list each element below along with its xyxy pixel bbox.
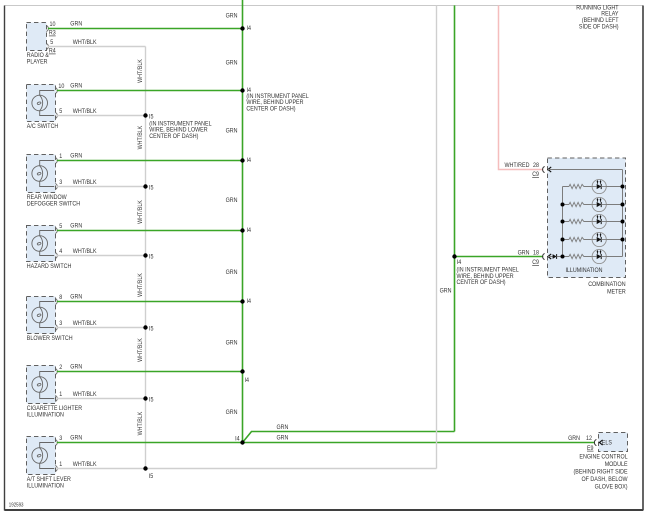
svg-text:SIDE OF DASH): SIDE OF DASH) — [579, 24, 619, 31]
bulb symbol inside A/T SHIFT LEVER ILLUMINATION — [32, 448, 48, 464]
pin 1 of REAR WINDOW DEFOGGER SWITCH — [55, 158, 57, 164]
svg-text:I4: I4 — [247, 25, 252, 32]
wire WHT/BLK from CIGARETTE LIGHTER ILLUMINATION pin 1 to bus — [57, 398, 146, 400]
svg-text:WHT/BLK: WHT/BLK — [73, 391, 97, 398]
pin 5 of RADIO & PLAYER — [46, 44, 48, 50]
svg-text:10: 10 — [58, 83, 64, 90]
junction I4 (RADIO & PLAYER GRN row) — [240, 26, 244, 30]
meter illumination branch 5: resistor + LED — [563, 256, 570, 258]
junction dot right rail row 2 — [621, 203, 625, 207]
pin 10 of A/C SWITCH — [55, 88, 57, 94]
junction I5 (CIGARETTE LIGHTER ILLUMINATION WHT/BLK row) — [143, 396, 147, 400]
internal wire from pin 28 to right rail — [548, 169, 623, 171]
junction I4 (BLOWER SWITCH GRN row) — [240, 299, 244, 303]
component RADIO & PLAYER (dashed box) — [27, 23, 47, 51]
svg-text:GRN: GRN — [70, 294, 82, 301]
component A/C SWITCH (dashed box) — [27, 85, 56, 122]
wire: GRN to engine control module — [243, 442, 596, 444]
bulb symbol inside HAZARD SWITCH — [32, 236, 48, 252]
wire GRN from A/T SHIFT LEVER ILLUMINATION pin 3 to bus — [57, 442, 243, 444]
svg-text:I4: I4 — [247, 227, 252, 234]
svg-text:5: 5 — [59, 108, 62, 115]
internal leads of CIGARETTE LIGHTER ILLUMINATION — [40, 372, 55, 377]
internal leads of REAR WINDOW DEFOGGER SWITCH — [40, 161, 55, 166]
svg-text:WHT/BLK: WHT/BLK — [73, 179, 97, 186]
svg-text:ELS: ELS — [602, 440, 612, 447]
pin 10 of RADIO & PLAYER — [46, 26, 48, 32]
wire GRN from BLOWER SWITCH pin 8 to bus — [57, 301, 243, 303]
junction I5 (REAR WINDOW DEFOGGER SWITCH WHT/BLK row) — [143, 184, 147, 188]
pin 8 of BLOWER SWITCH — [55, 299, 57, 305]
pin 5 of A/C SWITCH — [55, 113, 57, 119]
page right border — [642, 6, 644, 511]
bulb symbol inside A/C SWITCH — [32, 95, 48, 111]
pin 2 of CIGARETTE LIGHTER ILLUMINATION — [55, 369, 57, 375]
pin 1 of A/T SHIFT LEVER ILLUMINATION — [55, 466, 57, 472]
svg-text:WHT/BLK: WHT/BLK — [137, 411, 144, 435]
svg-text:I5: I5 — [149, 473, 154, 480]
pin 3 of A/T SHIFT LEVER ILLUMINATION — [55, 440, 57, 446]
svg-text:WHT/BLK: WHT/BLK — [73, 461, 97, 468]
svg-text:GRN: GRN — [277, 435, 289, 442]
junction dot right rail row 3 — [621, 220, 625, 224]
junction I4 (CIGARETTE LIGHTER ILLUMINATION GRN row) — [240, 369, 244, 373]
svg-text:1: 1 — [59, 153, 62, 160]
svg-text:BLOWER SWITCH: BLOWER SWITCH — [27, 335, 73, 342]
junction dot right rail row 1 — [621, 185, 625, 189]
svg-text:GRN: GRN — [70, 435, 82, 442]
junction I5 (A/T SHIFT LEVER ILLUMINATION WHT/BLK row) — [143, 466, 147, 470]
meter illumination branch 3: resistor + LED — [563, 221, 570, 223]
junction I4 on bus2 — [452, 254, 456, 258]
svg-text:192593: 192593 — [9, 503, 24, 509]
svg-text:I4: I4 — [457, 259, 462, 266]
pin 4 of HAZARD SWITCH — [55, 253, 57, 259]
svg-text:1: 1 — [59, 461, 62, 468]
combination meter dashed box — [548, 158, 626, 278]
page bottom border — [5, 509, 644, 511]
meter left rail — [562, 187, 564, 257]
svg-text:GRN: GRN — [226, 340, 238, 347]
page left border — [4, 6, 6, 511]
wire GRN from bus2 to meter — [455, 256, 544, 258]
svg-text:OF DASH, BELOW: OF DASH, BELOW — [582, 476, 628, 483]
svg-text:GLOVE BOX): GLOVE BOX) — [595, 483, 628, 490]
component HAZARD SWITCH (dashed box) — [27, 226, 56, 262]
svg-text:WHT/RED: WHT/RED — [505, 162, 530, 169]
svg-text:WHT/BLK: WHT/BLK — [137, 199, 144, 223]
svg-text:GRN: GRN — [226, 128, 238, 135]
component CIGARETTE LIGHTER ILLUMINATION (dashed box) — [27, 366, 56, 404]
wire WHT/BLK from HAZARD SWITCH pin 4 to bus — [57, 255, 146, 257]
pin 5 of HAZARD SWITCH — [55, 228, 57, 234]
svg-text:A/C SWITCH: A/C SWITCH — [27, 123, 59, 130]
svg-text:GRN: GRN — [70, 83, 82, 90]
bulb symbol inside REAR WINDOW DEFOGGER SWITCH — [32, 166, 48, 182]
wire: GRN bus 2 vertical (to combination meter / top) — [454, 5, 456, 431]
engine control module dashed box — [599, 433, 628, 452]
svg-text:GRN: GRN — [226, 60, 238, 67]
junction I4 (A/T SHIFT LEVER ILLUMINATION GRN row) — [240, 440, 244, 444]
svg-text:ILLUMINATION: ILLUMINATION — [565, 267, 602, 274]
svg-text:I4: I4 — [245, 377, 250, 384]
svg-text:WHT/BLK: WHT/BLK — [137, 272, 144, 296]
svg-text:ILLUMINATION: ILLUMINATION — [27, 483, 64, 490]
svg-text:I4: I4 — [235, 436, 240, 443]
svg-text:GRN: GRN — [226, 409, 238, 416]
junction I4 (A/C SWITCH GRN row) — [240, 88, 244, 92]
pin 1 of CIGARETTE LIGHTER ILLUMINATION — [55, 396, 57, 402]
junction dot left rail row 2 — [561, 203, 565, 207]
meter right rail — [622, 170, 624, 257]
wire GRN from HAZARD SWITCH pin 5 to bus — [57, 230, 243, 232]
svg-text:GRN: GRN — [518, 250, 530, 257]
svg-text:METER: METER — [607, 288, 626, 295]
svg-text:CENTER OF DASH): CENTER OF DASH) — [149, 133, 198, 140]
svg-text:GRN: GRN — [568, 435, 580, 442]
svg-text:I5: I5 — [149, 397, 154, 404]
meter illumination branch 2: resistor + LED — [563, 204, 570, 206]
junction dot left rail row 5 — [561, 255, 565, 259]
connector E9 pin 12 entry — [594, 439, 596, 445]
pin 3 of BLOWER SWITCH — [55, 325, 57, 331]
svg-text:GRN: GRN — [226, 269, 238, 276]
bulb symbol inside BLOWER SWITCH — [32, 307, 48, 323]
svg-text:3: 3 — [59, 435, 62, 442]
svg-text:WHT/BLK: WHT/BLK — [73, 108, 97, 115]
wire: GRN link from bus1 bottom junction to bus2 (diagonal + horizontal) — [243, 432, 455, 443]
wire: WHT/BLK bus vertical (net I5) — [145, 47, 147, 469]
page top border — [5, 5, 644, 7]
svg-text:C9: C9 — [532, 259, 539, 266]
svg-text:R3: R3 — [49, 30, 56, 37]
svg-text:WHT/BLK: WHT/BLK — [73, 39, 97, 46]
component REAR WINDOW DEFOGGER SWITCH (dashed box) — [27, 155, 56, 193]
svg-text:2: 2 — [59, 364, 62, 371]
meter illumination branch 1: resistor + LED — [563, 186, 570, 188]
internal leads of A/C SWITCH — [40, 91, 55, 96]
component A/T SHIFT LEVER ILLUMINATION (dashed box) — [27, 437, 56, 475]
svg-text:GRN: GRN — [440, 288, 452, 295]
svg-text:10: 10 — [50, 21, 56, 28]
internal leads of BLOWER SWITCH — [40, 302, 55, 308]
wire WHT/BLK from A/T SHIFT LEVER ILLUMINATION pin 1 to bus — [57, 468, 437, 470]
svg-text:C9: C9 — [532, 171, 539, 178]
meter illumination branch 4: resistor + LED — [563, 239, 570, 241]
svg-text:5: 5 — [59, 223, 62, 230]
wire WHT/BLK from REAR WINDOW DEFOGGER SWITCH pin 3 to bus — [57, 186, 146, 188]
junction I5 (A/C SWITCH WHT/BLK row) — [143, 113, 147, 117]
svg-text:8: 8 — [59, 294, 62, 301]
svg-text:GRN: GRN — [226, 197, 238, 204]
svg-text:3: 3 — [59, 179, 62, 186]
wire GRN from RADIO & PLAYER pin 10 to bus — [48, 28, 243, 30]
pin 3 of REAR WINDOW DEFOGGER SWITCH — [55, 184, 57, 190]
wire WHT/BLK from BLOWER SWITCH pin 3 to bus — [57, 327, 146, 329]
svg-text:ENGINE CONTROL: ENGINE CONTROL — [579, 453, 628, 460]
wire: WHT/BLK bus 2 vertical (right, to top of page) — [436, 5, 438, 468]
junction I5 (BLOWER SWITCH WHT/BLK row) — [143, 325, 147, 329]
svg-text:GRN: GRN — [70, 21, 82, 28]
svg-text:WHT/BLK: WHT/BLK — [137, 337, 144, 361]
wire GRN from CIGARETTE LIGHTER ILLUMINATION pin 2 to bus — [57, 371, 243, 373]
svg-text:CENTER OF DASH): CENTER OF DASH) — [246, 106, 295, 113]
svg-text:MODULE: MODULE — [605, 461, 628, 468]
wire: WHT/RED from running light relay (pink) — [499, 5, 544, 169]
svg-text:GRN: GRN — [70, 223, 82, 230]
svg-text:R4: R4 — [49, 48, 56, 55]
svg-text:4: 4 — [59, 248, 62, 255]
svg-text:COMBINATION: COMBINATION — [588, 281, 626, 288]
svg-text:1: 1 — [59, 391, 62, 398]
junction I4 (HAZARD SWITCH GRN row) — [240, 228, 244, 232]
svg-text:I4: I4 — [247, 157, 252, 164]
svg-text:I5: I5 — [149, 185, 154, 192]
svg-text:GRN: GRN — [226, 13, 238, 20]
svg-text:WHT/BLK: WHT/BLK — [137, 58, 144, 82]
svg-text:GRN: GRN — [70, 153, 82, 160]
wire GRN from A/C SWITCH pin 10 to bus — [57, 90, 243, 92]
connector C9 pin 18 entry (GRN) — [543, 253, 545, 259]
wire: GRN bus (net I4) vertical — [242, 0, 244, 443]
svg-text:5: 5 — [50, 39, 53, 46]
junction dot left rail row 3 — [561, 220, 565, 224]
svg-text:18: 18 — [533, 250, 539, 257]
wire WHT/BLK from RADIO & PLAYER pin 5 to bus — [48, 46, 146, 48]
svg-text:DEFOGGER SWITCH: DEFOGGER SWITCH — [27, 201, 81, 208]
svg-text:WHT/BLK: WHT/BLK — [137, 125, 144, 149]
svg-text:I5: I5 — [149, 254, 154, 261]
diode at meter GRN entry — [548, 256, 553, 258]
svg-text:I4: I4 — [247, 298, 252, 305]
internal leads of A/T SHIFT LEVER ILLUMINATION — [40, 443, 55, 448]
junction I5 (HAZARD SWITCH WHT/BLK row) — [143, 253, 147, 257]
svg-text:I5: I5 — [149, 326, 154, 333]
svg-text:PLAYER: PLAYER — [27, 59, 48, 66]
connector C9 pin 28 entry (WHT/RED) — [543, 166, 545, 172]
junction I4 (REAR WINDOW DEFOGGER SWITCH GRN row) — [240, 158, 244, 162]
wire WHT/BLK from A/C SWITCH pin 5 to bus — [57, 115, 146, 117]
svg-text:WHT/BLK: WHT/BLK — [73, 248, 97, 255]
svg-text:HAZARD SWITCH: HAZARD SWITCH — [27, 263, 72, 270]
internal leads of HAZARD SWITCH — [40, 231, 55, 236]
bulb symbol inside CIGARETTE LIGHTER ILLUMINATION — [32, 377, 48, 393]
svg-text:(BEHIND RIGHT SIDE: (BEHIND RIGHT SIDE — [574, 468, 628, 475]
svg-text:E9: E9 — [587, 445, 594, 452]
wire GRN from REAR WINDOW DEFOGGER SWITCH pin 1 to bus — [57, 160, 243, 162]
svg-text:28: 28 — [533, 162, 539, 169]
svg-text:CENTER OF DASH): CENTER OF DASH) — [457, 279, 506, 286]
svg-text:GRN: GRN — [70, 364, 82, 371]
junction dot right rail row 4 — [621, 238, 625, 242]
svg-text:12: 12 — [586, 435, 592, 442]
svg-text:GRN: GRN — [277, 424, 289, 431]
svg-text:WHT/BLK: WHT/BLK — [73, 320, 97, 327]
component BLOWER SWITCH (dashed box) — [27, 297, 56, 334]
junction dot left rail row 4 — [561, 238, 565, 242]
svg-text:3: 3 — [59, 320, 62, 327]
svg-text:ILLUMINATION: ILLUMINATION — [27, 412, 64, 419]
